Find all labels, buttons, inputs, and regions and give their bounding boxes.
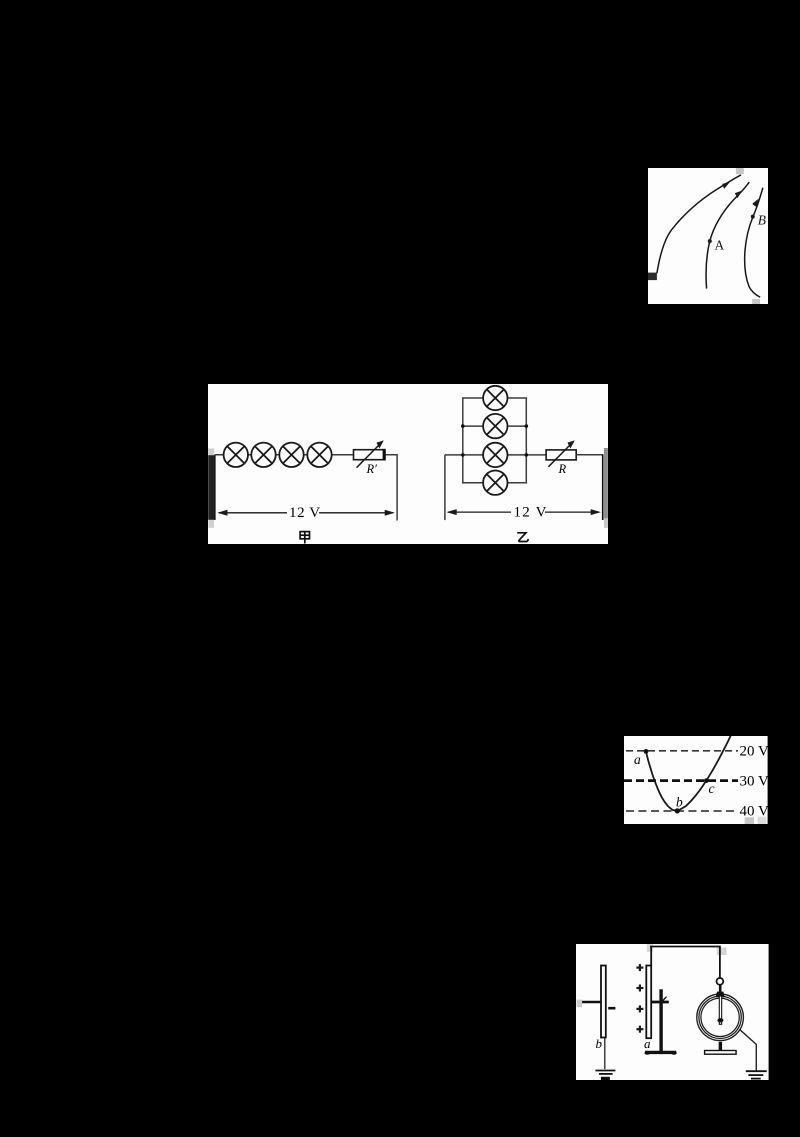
wire jia right bbox=[386, 455, 398, 521]
field line 1 bbox=[657, 174, 741, 272]
node B dot bbox=[751, 214, 755, 218]
lamp L5 bbox=[483, 386, 507, 410]
electroscope rod (double line) bbox=[719, 996, 721, 1024]
base bbox=[705, 1050, 736, 1054]
rheostat R' arrow bbox=[357, 444, 380, 467]
svg-text:A: A bbox=[714, 237, 724, 252]
svg-text:R′: R′ bbox=[366, 462, 378, 476]
rheostat R' body bbox=[354, 449, 386, 459]
branch wires bbox=[462, 397, 527, 399]
ground wire bbox=[739, 1029, 756, 1071]
lamp L2 bbox=[251, 442, 275, 466]
lamp L1 bbox=[224, 442, 248, 466]
svg-text:b: b bbox=[676, 794, 683, 809]
wire below plate b bbox=[604, 1037, 606, 1069]
svg-text:12 V: 12 V bbox=[514, 504, 548, 520]
charged plate stub bbox=[648, 272, 657, 279]
yi circuit: left vertical wire bbox=[444, 455, 446, 520]
battery terminal bar (jia) gray caps bbox=[208, 448, 214, 455]
ground symbol b bbox=[595, 1070, 615, 1073]
dashed line 30V bbox=[624, 779, 738, 782]
lamp L8 bbox=[483, 470, 507, 494]
top wire bbox=[650, 946, 720, 978]
arrowhead on line 1 bbox=[721, 179, 731, 188]
battery terminal bar (jia) bbox=[208, 455, 214, 520]
arrowhead on line 3 bbox=[752, 197, 759, 207]
svg-text:B: B bbox=[758, 212, 766, 227]
plate b bbox=[601, 965, 606, 1037]
plus signs bbox=[636, 964, 643, 1033]
wire from plate a to top bbox=[650, 946, 652, 965]
gray artifact top bbox=[736, 168, 744, 174]
label yi (Chinese) bbox=[517, 533, 528, 542]
gray artifacts bbox=[577, 1000, 582, 1008]
stand rod bbox=[659, 989, 662, 1052]
dashed line 40V bbox=[626, 810, 738, 812]
collar bbox=[716, 992, 725, 998]
label jia (Chinese) bbox=[300, 531, 309, 543]
field line 2 bbox=[706, 182, 749, 289]
minus sign bbox=[608, 1007, 615, 1010]
wire jia horizontal bbox=[215, 454, 354, 456]
electroscope stand bbox=[719, 1042, 722, 1051]
svg-text:R: R bbox=[558, 462, 567, 476]
pivot bbox=[717, 1018, 723, 1022]
field line 3 bbox=[745, 187, 763, 296]
svg-text:40 V: 40 V bbox=[739, 803, 767, 819]
point b dot bbox=[675, 808, 680, 813]
wire into plate b bbox=[582, 1001, 601, 1004]
12V arrow jia bbox=[217, 510, 395, 516]
node A dot bbox=[708, 239, 712, 243]
rheostat R body bbox=[546, 450, 576, 460]
electroscope ball bbox=[716, 978, 723, 985]
gray artifacts bottom bbox=[745, 817, 754, 824]
gray artifact bottom right bbox=[752, 298, 760, 304]
parallel rails bbox=[462, 398, 464, 483]
dashed line 20V bbox=[626, 749, 738, 751]
right terminal gray bar bbox=[604, 448, 608, 518]
arrowhead on line 2 bbox=[733, 188, 743, 198]
junction dots bbox=[461, 424, 528, 456]
svg-text:30 V: 30 V bbox=[739, 773, 767, 789]
svg-text:20 V: 20 V bbox=[739, 743, 767, 759]
electroscope rod upper bbox=[719, 985, 722, 992]
lamp L4 bbox=[307, 442, 331, 466]
lamp L6 bbox=[483, 414, 507, 438]
svg-text:b: b bbox=[596, 1036, 603, 1051]
rheostat R arrow bbox=[548, 444, 570, 466]
stand clamp bbox=[651, 1001, 669, 1004]
point a dot bbox=[644, 749, 649, 754]
svg-text:a: a bbox=[634, 751, 641, 766]
main wire yi at lamp3 level bbox=[445, 454, 546, 456]
plate a bbox=[646, 965, 651, 1038]
lamp L3 bbox=[279, 442, 303, 466]
electroscope case rings bbox=[697, 994, 744, 1041]
equipotential curve bbox=[646, 735, 731, 810]
stand foot bbox=[645, 1051, 676, 1054]
12V arrow yi bbox=[447, 509, 601, 515]
svg-text:c: c bbox=[708, 781, 714, 796]
ground symbol electroscope bbox=[746, 1071, 767, 1078]
svg-text:a: a bbox=[644, 1036, 650, 1051]
point c dot bbox=[704, 778, 709, 783]
wire yi right bbox=[576, 454, 603, 456]
svg-text:12 V: 12 V bbox=[289, 505, 321, 521]
lamp L7 bbox=[483, 442, 507, 466]
